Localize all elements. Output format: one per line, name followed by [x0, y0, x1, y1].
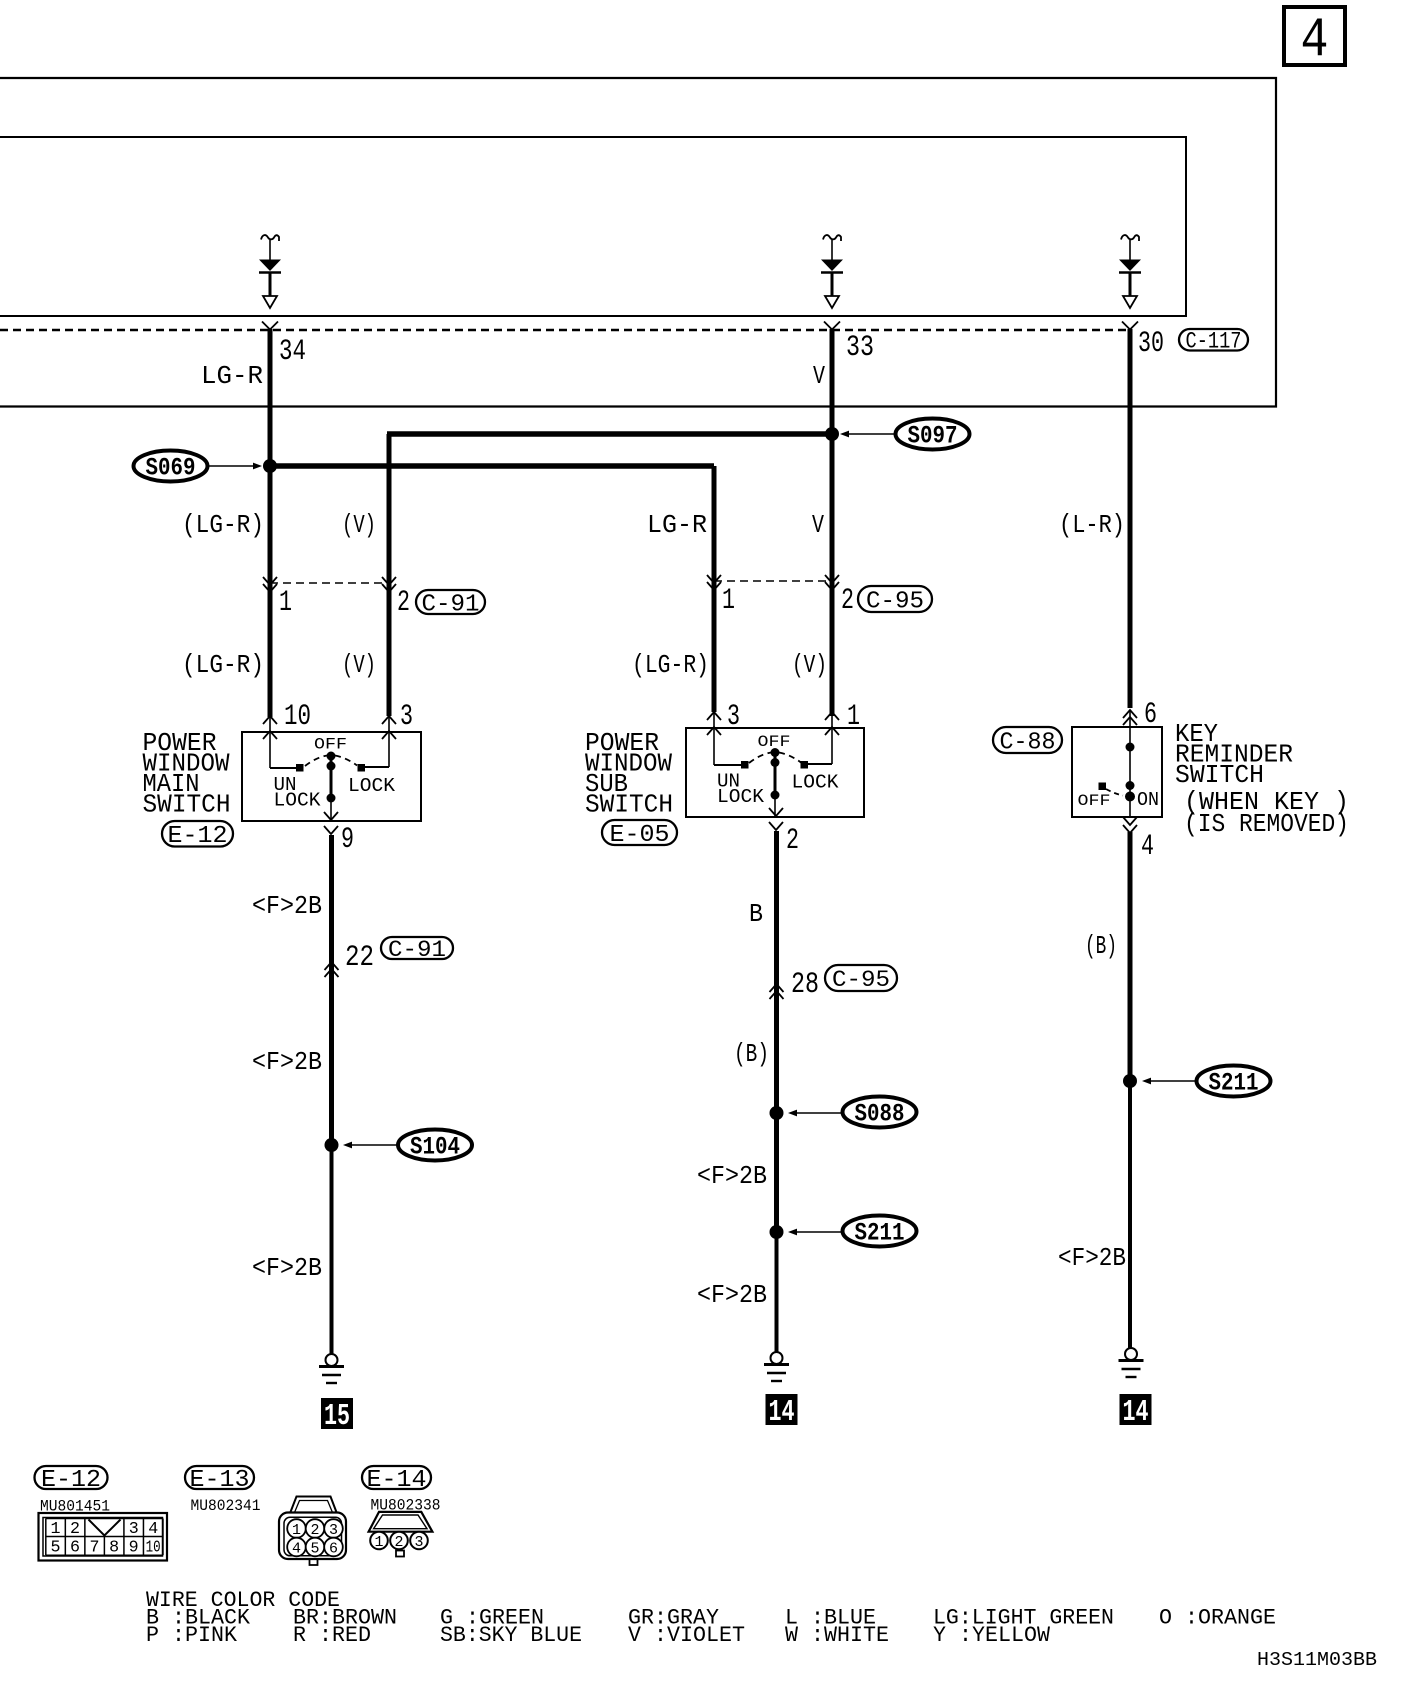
svg-text:10: 10 — [284, 700, 311, 734]
svg-text:V: V — [812, 510, 824, 540]
svg-text:10: 10 — [146, 1539, 161, 1558]
svg-text:(B): (B) — [734, 1039, 769, 1069]
svg-text:9: 9 — [341, 823, 354, 857]
svg-text:R :RED: R :RED — [293, 1623, 371, 1648]
svg-text:(L-R): (L-R) — [1059, 510, 1125, 540]
svg-text:28: 28 — [791, 968, 819, 1002]
svg-text:3: 3 — [727, 700, 740, 734]
svg-text:1: 1 — [375, 1534, 384, 1551]
svg-text:C-95: C-95 — [832, 967, 890, 993]
svg-text:2: 2 — [70, 1520, 80, 1539]
svg-text:3: 3 — [400, 700, 413, 734]
svg-text:2: 2 — [841, 584, 854, 618]
svg-text:8: 8 — [109, 1539, 119, 1558]
svg-text:S097: S097 — [908, 422, 958, 451]
svg-text:S069: S069 — [146, 454, 196, 483]
svg-text:15: 15 — [324, 1399, 350, 1434]
svg-text:B: B — [749, 899, 763, 929]
svg-text:C-91: C-91 — [422, 591, 480, 618]
svg-text:LOCK: LOCK — [274, 790, 322, 812]
svg-text:C-88: C-88 — [1000, 729, 1056, 756]
svg-text:<F>2B: <F>2B — [697, 1161, 767, 1191]
svg-text:C-117: C-117 — [1186, 329, 1242, 355]
svg-text:E-12: E-12 — [168, 823, 228, 850]
svg-text:LOCK: LOCK — [348, 775, 396, 797]
svg-text:2: 2 — [311, 1522, 320, 1539]
svg-text:SWITCH: SWITCH — [1175, 760, 1264, 790]
svg-text:MU802341: MU802341 — [191, 1497, 261, 1515]
svg-text:4: 4 — [292, 1541, 301, 1558]
svg-text:3: 3 — [415, 1534, 424, 1551]
svg-text:SB:SKY BLUE: SB:SKY BLUE — [440, 1623, 582, 1648]
svg-text:(LG-R): (LG-R) — [632, 650, 709, 680]
svg-text:V: V — [813, 361, 825, 391]
svg-text:E-14: E-14 — [367, 1467, 427, 1494]
svg-text:5: 5 — [311, 1541, 320, 1558]
svg-text:1: 1 — [279, 586, 292, 620]
svg-text:<F>2B: <F>2B — [1058, 1243, 1126, 1273]
svg-text:2: 2 — [786, 824, 799, 858]
svg-text:E-13: E-13 — [190, 1467, 250, 1494]
svg-text:14: 14 — [769, 1395, 795, 1430]
svg-text:3: 3 — [129, 1520, 139, 1539]
svg-text:E-05: E-05 — [610, 822, 670, 849]
svg-text:LG-R: LG-R — [201, 361, 263, 391]
svg-text:OFF: OFF — [1078, 792, 1111, 810]
svg-text:4: 4 — [1141, 830, 1154, 864]
svg-text:S088: S088 — [855, 1100, 905, 1129]
svg-text:SWITCH: SWITCH — [585, 790, 673, 820]
svg-text:LOCK: LOCK — [717, 786, 765, 808]
svg-text:<F>2B: <F>2B — [252, 1253, 322, 1283]
svg-text:30: 30 — [1138, 327, 1164, 361]
svg-text:34: 34 — [279, 335, 306, 369]
svg-text:W :WHITE: W :WHITE — [785, 1623, 889, 1648]
svg-text:5: 5 — [51, 1539, 61, 1558]
svg-text:1: 1 — [722, 584, 735, 618]
svg-text:(IS REMOVED): (IS REMOVED) — [1184, 809, 1349, 839]
svg-text:(LG-R): (LG-R) — [182, 650, 264, 680]
svg-text:O :ORANGE: O :ORANGE — [1159, 1606, 1276, 1631]
svg-text:ON: ON — [1137, 789, 1159, 811]
svg-text:Y :YELLOW: Y :YELLOW — [933, 1623, 1051, 1648]
svg-text:22: 22 — [345, 941, 374, 975]
svg-text:S104: S104 — [410, 1133, 460, 1162]
svg-text:6: 6 — [1144, 698, 1157, 732]
svg-text:1: 1 — [51, 1520, 61, 1539]
svg-text:S211: S211 — [1209, 1069, 1259, 1098]
svg-text:(B): (B) — [1085, 931, 1117, 961]
svg-text:LOCK: LOCK — [792, 772, 840, 794]
svg-text:9: 9 — [129, 1539, 139, 1558]
svg-text:E-12: E-12 — [41, 1467, 101, 1494]
svg-text:S211: S211 — [855, 1219, 905, 1248]
svg-text:V :VIOLET: V :VIOLET — [628, 1623, 745, 1648]
svg-text:7: 7 — [90, 1539, 100, 1558]
svg-text:33: 33 — [846, 331, 874, 365]
svg-text:6: 6 — [70, 1539, 80, 1558]
svg-text:(V): (V) — [792, 650, 827, 680]
svg-text:C-91: C-91 — [388, 937, 446, 963]
svg-text:<F>2B: <F>2B — [252, 891, 322, 921]
svg-text:(V): (V) — [342, 650, 376, 680]
svg-text:6: 6 — [329, 1541, 338, 1558]
svg-text:2: 2 — [397, 586, 410, 620]
svg-text:OFF: OFF — [314, 736, 347, 754]
svg-text:(LG-R): (LG-R) — [182, 510, 264, 540]
svg-text:C-95: C-95 — [866, 588, 924, 615]
svg-text:<F>2B: <F>2B — [252, 1047, 322, 1077]
svg-text:H3S11M03BB: H3S11M03BB — [1257, 1649, 1377, 1671]
svg-text:P :PINK: P :PINK — [146, 1623, 238, 1648]
svg-text:4: 4 — [1301, 8, 1329, 72]
svg-text:<F>2B: <F>2B — [697, 1280, 767, 1310]
svg-text:2: 2 — [395, 1534, 404, 1551]
svg-text:LG-R: LG-R — [647, 510, 707, 540]
svg-text:(V): (V) — [342, 510, 376, 540]
svg-text:3: 3 — [329, 1522, 338, 1539]
svg-text:4: 4 — [148, 1520, 158, 1539]
svg-text:SWITCH: SWITCH — [143, 790, 231, 820]
svg-text:1: 1 — [292, 1522, 301, 1539]
svg-text:1: 1 — [847, 700, 860, 734]
svg-text:14: 14 — [1123, 1395, 1149, 1430]
